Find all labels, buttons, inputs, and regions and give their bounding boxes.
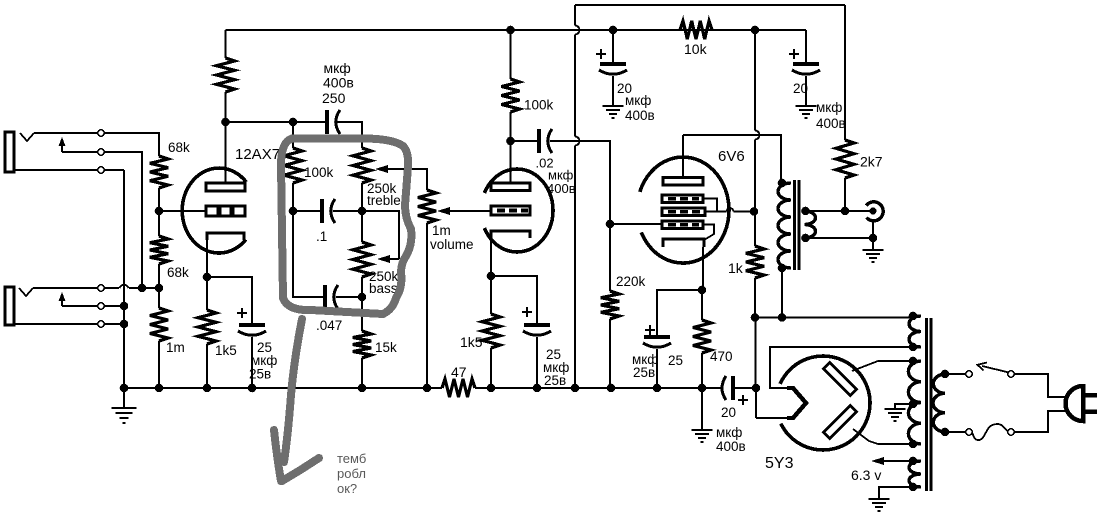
svg-text:68k: 68k: [167, 265, 189, 280]
PT core: [925, 318, 928, 491]
node: plate node dots: [221, 118, 230, 127]
svg-text:volume: volume: [430, 237, 474, 252]
svg-text:темб: темб: [337, 451, 366, 466]
wire V1 plate resistor bottom: [225, 92, 227, 122]
wire rail corner to filter2: [805, 30, 807, 64]
V1 cathode lead: [206, 240, 208, 277]
wire .047 to bass node: [336, 296, 362, 298]
wire switch to plug: [1014, 374, 1067, 397]
wire J1 sleeve to ground bus: [13, 169, 124, 171]
input jack J1 tip spring arrow: [61, 144, 63, 152]
6V6 plate lead: [682, 135, 684, 177]
svg-text:6.3 v: 6.3 v: [851, 467, 881, 483]
potentiometer 1m volume: [418, 190, 436, 223]
node: PT primary bottom: [941, 428, 950, 437]
node: 5V top: [909, 312, 918, 321]
svg-text:400в: 400в: [816, 116, 846, 131]
capacitor 20uF 400v (filter 1): [600, 62, 626, 66]
wire V2 cathode to bypass cap: [491, 276, 537, 324]
wire B+ node to 5V top: [755, 317, 913, 319]
node: V2 plate node: [506, 137, 515, 146]
svg-text:мкф: мкф: [625, 93, 651, 108]
6V6 plate: [663, 178, 703, 186]
feedback drop to ground rail: [574, 146, 576, 389]
fuse element: [973, 424, 1009, 440]
node: PT primary top: [941, 370, 950, 379]
svg-text:ок?: ок?: [337, 481, 357, 496]
ground speaker jack: [863, 249, 884, 251]
resistor 1m (input load): [150, 308, 168, 341]
V1 grid (three squares): [206, 206, 218, 216]
switch terminal left: [966, 371, 972, 377]
wire 5V winding to cathode top: [770, 347, 913, 388]
svg-text:15k: 15k: [375, 340, 397, 355]
wire OT primary bottom stub: [781, 267, 791, 269]
svg-text:.1: .1: [316, 229, 327, 244]
B+ rail wire: [226, 29, 807, 31]
wire 6.3V to heaters: [882, 460, 913, 462]
volume wiper arrow to V2 grid: [449, 210, 491, 212]
node: HV bottom: [909, 440, 918, 449]
node: filter node 2: [751, 26, 760, 35]
svg-text:220k: 220k: [616, 274, 646, 289]
AC plug body: [1066, 386, 1084, 421]
svg-text:мкф: мкф: [716, 425, 742, 440]
svg-text:мкф: мкф: [816, 100, 842, 115]
wire V1 cathode to 1k5: [206, 277, 208, 310]
svg-text:treble: treble: [367, 193, 401, 208]
resistor 47 (feedback tail): [442, 379, 475, 397]
svg-text:20: 20: [793, 81, 808, 96]
resistor 100k (tone slope): [284, 148, 302, 183]
resistor 2k7 (feedback): [836, 140, 854, 178]
svg-text:bass: bass: [369, 281, 398, 296]
svg-text:20: 20: [721, 405, 736, 420]
wire to fuse: [945, 431, 966, 433]
V1 cathode: [207, 233, 244, 240]
speaker jack symbol: [866, 202, 883, 221]
resistor V1 plate load: [217, 58, 235, 92]
ground rail right section: [475, 387, 721, 389]
node: 6.3V top: [909, 457, 918, 466]
ground filter2: [796, 105, 817, 107]
node: 100k/.1 junction: [289, 207, 298, 216]
resistor 470 (6V6 cathode): [693, 320, 711, 353]
node: tone mid junction: [358, 207, 367, 216]
wire OT primary top stub: [781, 182, 791, 184]
tube V2 envelope: [484, 169, 553, 252]
resistor 1k5 (V1 cathode): [198, 310, 216, 344]
wire 6.3V bottom to ground: [879, 487, 913, 498]
input jack J1 tip contact: [20, 133, 34, 141]
hop: feedback line over B+ rail: [575, 26, 580, 35]
wire 6V6 plate to OT: [683, 135, 781, 183]
V2 plate lead: [510, 141, 512, 183]
6V6 cathode lead: [702, 247, 704, 290]
node: speaker ground junction: [869, 234, 878, 243]
wire 6V6 cathode to bypass: [657, 290, 702, 336]
wire V1 cathode to bypass cap: [207, 277, 252, 324]
wire speaker hot: [806, 210, 872, 212]
wire .02 to 6V6 grid corner: [550, 141, 610, 224]
capacitor 25uF (V1 cathode bypass): [239, 323, 265, 327]
resistor 15k (tail): [353, 331, 371, 358]
resistor 10k (filter): [680, 21, 712, 39]
capacitor .02 coupling: [537, 129, 541, 153]
capacitor .1 (mid): [320, 199, 324, 223]
5Y3 cathode chevron: [787, 388, 806, 418]
wire 2k7 to speaker node: [844, 178, 846, 211]
svg-text:68k: 68k: [168, 140, 190, 155]
J1 tip terminal: [98, 130, 104, 136]
potentiometer 250k bass: [353, 242, 371, 277]
junction dots jack field: [138, 284, 147, 293]
V1 plate lead: [225, 122, 227, 183]
capacitor 250pf (treble cap): [325, 110, 329, 134]
node: 6V6 grid junction: [606, 220, 615, 229]
wire 1k to B+ node: [754, 278, 756, 318]
wire 68k1 to grid node: [158, 188, 160, 236]
ground rail dots: [120, 384, 129, 393]
wire B+ vertical lower: [754, 140, 756, 212]
wire jack ground drop: [872, 221, 874, 249]
node: V1 cathode junction: [203, 273, 212, 282]
PT HV winding: [908, 361, 921, 444]
hop: screen wire over envelope: [727, 208, 734, 212]
feedback bus left drop: [574, 5, 576, 26]
node: OT primary top: [778, 179, 787, 188]
capacitor 25uF (6V6 bypass): [644, 335, 670, 339]
wire J1 tip to 68k R1: [34, 133, 159, 156]
svg-text:250: 250: [322, 90, 346, 106]
V2 grid bar: [491, 206, 530, 215]
capacitor 20uF 400v (filter 2): [793, 62, 819, 66]
wire fuse to plug: [1014, 411, 1067, 432]
treble wiper arrow: [387, 169, 427, 190]
wire J1 ring: [62, 152, 142, 288]
feedback bus wire: [575, 4, 845, 6]
polarity + reservoir: [738, 395, 748, 405]
PT 6.3V winding: [909, 461, 921, 487]
wire 220k leads: [609, 224, 611, 291]
node: 6V6 cathode node: [698, 286, 707, 295]
wire V2 plate node to .02 cap: [511, 140, 540, 142]
node: HV center tap: [909, 400, 918, 409]
resistor 68k (upper grid stopper): [150, 156, 168, 188]
V2 plate: [491, 183, 530, 191]
svg-text:1k5: 1k5: [460, 334, 483, 350]
wire plate node row: [226, 121, 327, 123]
6V6 grid2 bar: [662, 208, 705, 216]
5Y3 plate bottom: [823, 405, 856, 438]
svg-text:.047: .047: [316, 318, 342, 333]
wire OT primary bottom down: [781, 268, 783, 318]
6V6 screen tie: [703, 199, 727, 212]
ground main: [112, 407, 137, 409]
node: rectifier B+ node: [752, 384, 761, 393]
svg-text:400в: 400в: [547, 181, 576, 196]
svg-text:25: 25: [668, 353, 683, 368]
wire 68k2 to jack2 node: [158, 264, 160, 288]
input jack J2 tip contact: [19, 288, 33, 296]
wire 1m leads: [158, 288, 160, 308]
wire 6V6 grid wire: [610, 223, 662, 225]
svg-text:25в: 25в: [633, 365, 655, 380]
wire bass bottom: [361, 277, 363, 297]
svg-text:10k: 10k: [684, 41, 708, 57]
bass wiper arrow: [390, 258, 399, 260]
resistor 100k (V2 plate load): [502, 79, 520, 112]
ground bus vertical: [123, 170, 125, 388]
capacitor .047 (bass): [323, 285, 327, 309]
J2 tip terminal: [98, 285, 104, 291]
OT core: [793, 180, 796, 270]
wire B+ down to rectifier node: [755, 318, 757, 389]
node: HV top: [909, 357, 918, 366]
annotation arrow (gray): [284, 319, 302, 462]
polarity + filter1: [596, 49, 606, 59]
ground filter1: [603, 105, 624, 107]
switch arm: [982, 366, 1009, 373]
wire treble bottom to mid node: [361, 183, 363, 242]
node: OT primary bottom: [778, 264, 787, 273]
input jack J2 tip spring arrow: [61, 299, 63, 306]
PT primary winding: [933, 374, 945, 432]
svg-text:470: 470: [710, 349, 733, 364]
V1 grid lead: [159, 210, 206, 212]
wire rail into 20uF cap: [702, 387, 721, 389]
svg-text:47: 47: [451, 364, 467, 380]
node: V2 cathode junction: [487, 272, 496, 281]
V2 cathode lead: [490, 238, 492, 276]
node: 5V bottom: [909, 343, 918, 352]
resistor 220k (6V6 grid): [601, 291, 619, 319]
svg-text:25в: 25в: [544, 373, 566, 388]
wire J2 tip to node: [33, 287, 119, 289]
wire 100k bottom to .1 row: [292, 183, 294, 211]
resistor 68k (lower): [150, 236, 168, 264]
node: B+ junction y318: [751, 313, 760, 322]
resistor 1k (screen): [746, 246, 764, 278]
wire 6V6 bypass to rail: [656, 349, 658, 388]
tube V1 12AX7 envelope: [182, 168, 246, 253]
node: bass/.047 junction: [358, 293, 367, 302]
wire HV top plate lead: [852, 361, 913, 371]
wire V2 1k5 leads: [490, 276, 492, 314]
5Y3 plate top: [823, 362, 856, 395]
svg-text:12AX7: 12AX7: [235, 146, 280, 163]
wire screen to B+ node: [734, 211, 755, 213]
wire rectifier output: [756, 417, 787, 419]
wire J2 sleeve to ground bus: [13, 323, 124, 325]
6V6 beam plate tie: [703, 225, 714, 241]
hop: B+ vertical over plate wire: [755, 131, 760, 140]
wire V2 bypass to rail: [536, 337, 538, 388]
AC plug prong bottom: [1084, 410, 1097, 415]
tube 5Y3 envelope: [780, 356, 870, 450]
svg-text:робл: робл: [337, 466, 366, 481]
svg-text:1m: 1m: [432, 223, 451, 238]
node: OT secondary top: [801, 207, 810, 216]
V1 plate: [206, 183, 245, 191]
svg-text:25в: 25в: [249, 367, 271, 382]
wire J2 ring to ground bus: [62, 305, 124, 307]
polarity + filter2: [789, 49, 799, 59]
wire B+ vertical upper: [754, 30, 756, 131]
wire filter1 leads: [612, 30, 614, 64]
tube 6V6 envelope: [640, 157, 729, 263]
node: V1 grid junction: [155, 207, 164, 216]
wire screen node to 1k: [754, 212, 756, 247]
svg-text:100k: 100k: [524, 98, 554, 113]
svg-text:1m: 1m: [166, 340, 185, 355]
svg-text:1k: 1k: [728, 260, 744, 276]
input jack J1 (top) body: [5, 132, 14, 172]
ground HV center tap: [885, 408, 906, 410]
wire 100k branch down to .047: [293, 211, 324, 297]
polarity + V2 bypass: [522, 307, 532, 317]
wire 100k top lead: [292, 122, 294, 148]
ground near 470: [692, 429, 713, 431]
svg-text:5Y3: 5Y3: [765, 455, 794, 472]
svg-text:400в: 400в: [716, 439, 746, 454]
V2 cathode: [491, 231, 530, 238]
wire to switch: [945, 373, 966, 375]
hop: jack2 tip wire over ground bus: [120, 285, 129, 288]
feedback bus right drop to 2k7: [844, 5, 846, 140]
6V6 cathode: [663, 239, 704, 247]
svg-text:2k7: 2k7: [860, 154, 883, 170]
wire main ground drop: [123, 388, 125, 407]
wire .1 row: [293, 210, 322, 212]
switch terminal right: [1008, 371, 1014, 377]
node: screen node: [750, 207, 759, 216]
svg-text:1k5: 1k5: [215, 343, 237, 358]
wire ground stub x702: [701, 388, 703, 429]
node: OT B+ junction: [778, 313, 787, 322]
node: OT secondary bottom: [801, 234, 810, 243]
node: rail/V2 plate R: [506, 26, 515, 35]
feedback drop continues: [574, 35, 576, 137]
wire V2 plate R leads: [510, 30, 512, 79]
J1 sleeve terminal: [98, 167, 104, 173]
wire 470 leads: [701, 290, 703, 320]
6V6 grid3 bar: [662, 221, 703, 229]
6V6 grid1 bar: [662, 195, 703, 203]
PT 5V winding: [909, 316, 921, 347]
hop: feedback line over signal wire: [575, 137, 579, 146]
node: 6.3V bottom: [909, 483, 918, 492]
capacitor 20uF 400v (B+ reservoir): [722, 376, 726, 400]
OT secondary winding: [805, 211, 816, 238]
wire speaker return: [806, 237, 874, 239]
J2 ring terminal: [98, 303, 104, 309]
polarity + V1 bypass: [237, 308, 247, 318]
node: feedback takeoff: [841, 207, 850, 216]
resistor 1k5 (V2 cathode): [482, 314, 500, 348]
capacitor 25uF (V2 bypass): [524, 323, 550, 327]
fuse terminal left: [966, 429, 972, 435]
wire HV bottom plate lead: [853, 429, 913, 444]
potentiometer 250k treble: [353, 148, 371, 183]
annotation loop (gray): [281, 139, 411, 315]
wire V1 bypass cap to ground rail: [251, 337, 253, 388]
svg-text:6V6: 6V6: [718, 148, 745, 165]
J2 sleeve terminal: [98, 321, 104, 327]
ground rail left section: [124, 387, 442, 389]
svg-text:400в: 400в: [323, 75, 354, 91]
input jack J2 (bottom) body: [5, 287, 14, 325]
AC plug prong top: [1084, 393, 1097, 398]
wire volume bottom to ground rail: [426, 223, 428, 388]
svg-text:100k: 100k: [304, 165, 334, 180]
OT primary winding: [778, 183, 791, 268]
J1 ring terminal: [98, 149, 104, 155]
wire V1 plate resistor top to rail: [225, 30, 227, 58]
wire 15k leads: [361, 297, 363, 331]
wire cap to B+ node: [733, 387, 756, 389]
svg-text:400в: 400в: [625, 108, 655, 123]
fuse terminal right: [1008, 429, 1014, 435]
ground 6.3V: [869, 498, 890, 500]
wire HV center tap: [895, 404, 913, 408]
polarity + 6V6 bypass: [645, 325, 655, 335]
node: filter node 1: [609, 26, 618, 35]
